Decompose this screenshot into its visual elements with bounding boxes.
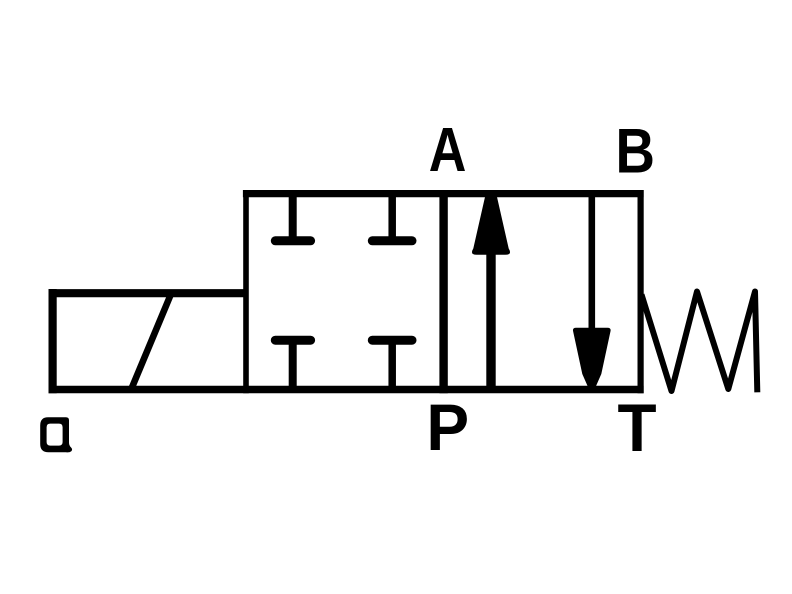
valve body top edge — [243, 190, 644, 197]
blocked port bottom-right: crossbar — [372, 336, 412, 345]
flow arrow P to A: head — [472, 193, 510, 255]
svg-text:P: P — [426, 390, 469, 464]
return spring — [642, 292, 758, 393]
solenoid a box — [49, 289, 248, 393]
solenoid label a (single-storey glyph drawn as path) — [40, 417, 72, 452]
blocked port top-right: crossbar — [372, 236, 412, 245]
blocked port top-right: stem — [388, 195, 396, 241]
blocked port bottom-left: stem — [289, 340, 297, 387]
valve body bottom edge — [49, 386, 644, 394]
svg-text:A: A — [429, 116, 467, 185]
middle box left edge — [243, 190, 249, 393]
blocked port bottom-right: stem — [388, 340, 396, 387]
flow arrow B to T: head — [573, 328, 611, 390]
svg-text:T: T — [617, 389, 656, 465]
svg-text:B: B — [615, 115, 654, 187]
divider between middle and right box — [439, 190, 447, 393]
flow arrow P to A: stem — [486, 250, 495, 388]
blocked port top-left: crossbar — [275, 236, 310, 245]
solenoid diagonal stroke — [131, 293, 171, 389]
right box right edge — [637, 190, 643, 393]
blocked port top-left: stem — [289, 195, 297, 241]
flow arrow B to T: stem — [588, 194, 595, 333]
blocked port bottom-left: crossbar — [275, 336, 310, 345]
